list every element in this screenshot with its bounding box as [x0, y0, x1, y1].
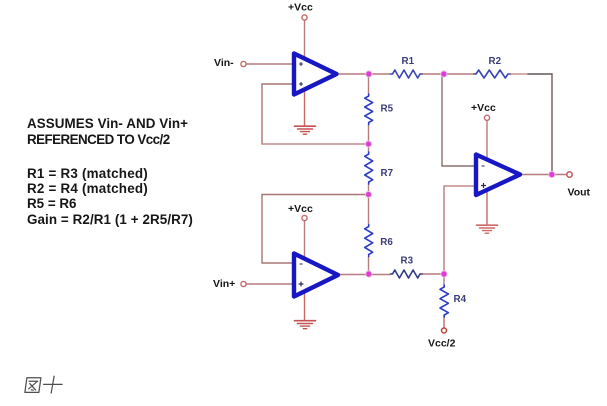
node D (R3/R4 junction)	[440, 270, 447, 277]
resistor R7	[365, 152, 373, 184]
wire +Vcc to U3	[486, 121, 488, 162]
wire U2 feedback stub	[262, 262, 294, 264]
svg-text:+Vcc: +Vcc	[288, 1, 313, 13]
wire column node A to R5	[368, 74, 370, 94]
wire U2 feedback vertical	[261, 195, 263, 264]
terminal Vin-	[241, 61, 246, 66]
svg-text:Vin+: Vin+	[213, 278, 235, 290]
resistor R2	[474, 70, 510, 78]
op-amp U3	[476, 155, 520, 196]
wire R4 to Vcc/2 terminal	[443, 317, 445, 328]
svg-text:R4: R4	[454, 294, 467, 305]
svg-text:Vout: Vout	[568, 186, 591, 198]
resistor R3	[391, 270, 423, 278]
label Vout	[568, 186, 591, 198]
caption 图十 (Figure 10, drawn strokes)	[25, 376, 64, 393]
terminal +Vcc (U3)	[484, 115, 489, 120]
wire U2 to ground	[304, 293, 306, 320]
svg-text:Vin-: Vin-	[214, 57, 234, 69]
wire node B down to U3 -in	[441, 75, 443, 166]
label +Vcc (U2)	[288, 203, 313, 215]
ground (U1)	[295, 126, 316, 134]
op-amp U2	[294, 254, 338, 297]
wire U2 feedback from node R7/R6	[262, 194, 369, 196]
label Vin-	[214, 57, 234, 69]
wire +Vcc to U2	[304, 221, 306, 258]
resistor R1	[391, 70, 423, 78]
terminal +Vcc (U2)	[302, 215, 307, 220]
ground (U2)	[295, 321, 316, 329]
wire U3 +in stub	[444, 185, 476, 187]
resistor R4	[440, 285, 448, 317]
wire U3 output to Vout	[520, 174, 567, 176]
wire U1 to ground	[304, 90, 306, 126]
terminal Vout	[567, 172, 572, 177]
svg-text:R6: R6	[380, 237, 393, 248]
wire U3 to ground	[486, 191, 488, 225]
wire R6 to node C	[368, 257, 370, 275]
svg-text:R5: R5	[381, 104, 394, 115]
wire R2 right lead	[510, 73, 528, 75]
wire U1 feedback to node R5/R7	[262, 143, 369, 145]
label R7	[381, 168, 394, 179]
resistor R5	[365, 94, 373, 125]
wire U1 feedback vertical	[261, 84, 263, 144]
wire Vin- to U1 +in	[246, 63, 294, 65]
label R3	[401, 256, 414, 267]
wire node D to R4	[443, 274, 445, 285]
terminal Vcc/2	[442, 328, 447, 333]
node B (R1/R2 junction)	[440, 70, 447, 77]
note: resistor matching / gain equations	[27, 166, 193, 226]
label +Vcc (U1)	[288, 1, 313, 13]
svg-text:Vcc/2: Vcc/2	[428, 338, 456, 350]
ground (U3)	[477, 225, 498, 233]
label R1	[402, 56, 415, 67]
wire R5 to node R5/R7	[368, 125, 370, 153]
svg-text:R3: R3	[401, 256, 414, 267]
svg-text:R1: R1	[402, 56, 415, 67]
terminal +Vcc (U1)	[302, 15, 307, 20]
node Vout junction	[548, 171, 555, 178]
wire Vin+ to U2 +in	[246, 283, 294, 285]
wire R2 feedback down to Vout node	[551, 74, 553, 174]
label R2	[489, 56, 502, 67]
svg-text:R2: R2	[489, 56, 502, 67]
wire R1 to node B	[422, 73, 474, 75]
wire node D up to U3 +in	[443, 186, 445, 273]
node R7/R6 junction	[365, 191, 372, 198]
wire R2 feedback horizontal dark	[528, 73, 552, 75]
label Vcc/2	[428, 338, 456, 350]
wire U3 -in stub	[442, 165, 476, 167]
label +Vcc (U3)	[471, 102, 496, 114]
label R4	[454, 294, 467, 305]
wire U2 output to node C	[338, 274, 390, 276]
node A (U1 out / R5)	[365, 70, 372, 77]
label R6	[380, 237, 393, 248]
wire R7 to node R7/R6	[368, 184, 370, 225]
wire U1 feedback stub	[262, 83, 294, 85]
node C (U2 out / R6)	[365, 270, 372, 277]
terminal Vin+	[241, 281, 246, 286]
svg-text:+Vcc: +Vcc	[288, 203, 313, 215]
label R5	[381, 104, 394, 115]
wire R3 to node D	[422, 273, 444, 275]
wire U1 output	[336, 73, 390, 75]
wire +Vcc to U1	[304, 20, 306, 59]
resistor R6	[365, 225, 373, 257]
op-amp U1	[294, 54, 337, 95]
svg-text:+Vcc: +Vcc	[471, 102, 496, 114]
svg-text:R7: R7	[381, 168, 394, 179]
node R5/R7 junction	[365, 140, 372, 147]
label Vin+	[213, 278, 235, 290]
note: circuit assumptions text	[27, 116, 188, 146]
